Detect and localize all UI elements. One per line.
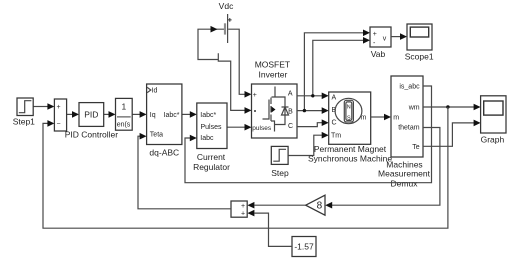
svg-text:Pulses: Pulses [201, 124, 223, 131]
block dq-ABC [147, 84, 182, 145]
wire: Sum1 output to PID [67, 111, 79, 118]
wire: Demux wm feedback to Sum1 - input [43, 107, 448, 228]
svg-text:wm: wm [408, 105, 420, 112]
svg-text:Step1: Step1 [13, 116, 35, 126]
svg-text:A: A [288, 90, 293, 97]
constant block -1.57 [292, 237, 316, 257]
wire: Step to PMSM Tm [288, 132, 329, 156]
svg-text:Measurement: Measurement [378, 169, 431, 179]
svg-text:thetam: thetam [398, 124, 420, 131]
block Step (Tm source) [271, 146, 288, 164]
sum block Sum1 [54, 99, 66, 131]
svg-text:MOSFET: MOSFET [255, 60, 290, 70]
svg-text:+: + [56, 104, 60, 111]
sum block Sum2 [231, 201, 247, 218]
svg-text:Id: Id [152, 88, 158, 95]
svg-text:PID: PID [84, 109, 98, 119]
svg-text:Inverter: Inverter [258, 70, 287, 80]
scope Scope1 [407, 24, 432, 50]
svg-text:C: C [332, 120, 337, 127]
svg-text:-1.57: -1.57 [294, 241, 314, 251]
motor icon inside PMSM [335, 98, 362, 123]
svg-text:Regulator: Regulator [193, 162, 230, 172]
svg-text:Synchronous Machine: Synchronous Machine [308, 154, 392, 164]
svg-text:+: + [241, 211, 245, 218]
svg-text:+: + [373, 31, 377, 38]
svg-text:8: 8 [317, 201, 323, 212]
wire: Demux thetam to Gain 8 input [325, 128, 440, 209]
svg-text:Demux: Demux [391, 178, 419, 188]
block MOSFET Inverter [252, 84, 298, 138]
svg-text:pulses: pulses [252, 125, 272, 132]
wire: Current Regulator Pulses to Inverter pulses [227, 124, 252, 131]
gain block 8 [306, 195, 325, 215]
svg-text:A: A [332, 95, 337, 102]
wire: inverter A to PMSM A with tap to Vab [297, 37, 370, 99]
svg-text:Iabc*: Iabc* [164, 112, 180, 119]
svg-text:Current: Current [197, 152, 226, 162]
block Transfer Fcn 1/den(s) [116, 98, 133, 130]
wire: Transfer Fcn output to dq-ABC Iq [132, 111, 146, 118]
wire: Gain output to Sum2 input 1 [247, 202, 305, 209]
svg-text:Iabc*: Iabc* [200, 112, 216, 119]
voltage measurement block Vab [370, 27, 391, 47]
block PMSM (Permanent Magnet Synchronous Machine) [329, 92, 371, 144]
svg-text:Tm: Tm [331, 133, 341, 140]
svg-text:is_abc: is_abc [399, 84, 420, 91]
svg-text:Permanent Magnet: Permanent Magnet [314, 144, 387, 154]
wire: Vdc plus to inverter + [228, 29, 251, 97]
svg-text:N: N [347, 104, 351, 110]
wire: dq-ABC Iabc* to Current Regulator [182, 111, 197, 118]
scope Graph [481, 96, 506, 133]
svg-text:C: C [288, 123, 293, 130]
wire: -1.57 to Sum2 input 2 [247, 210, 292, 247]
svg-text:Step: Step [271, 168, 289, 178]
svg-text:v: v [383, 35, 387, 42]
MOSFET symbol inside inverter [263, 87, 289, 132]
svg-text:1: 1 [122, 102, 127, 112]
svg-text:−: − [56, 121, 60, 128]
block Current Regulator [197, 103, 227, 149]
wire: inverter B to PMSM B with tap to Vab [297, 30, 370, 114]
svg-text:dq-ABC: dq-ABC [149, 148, 179, 158]
svg-text:m: m [393, 114, 399, 121]
svg-text:PID Controller: PID Controller [65, 129, 119, 139]
wire: Vdc loop left (battery minus to inverter - ) [198, 26, 252, 114]
svg-text:Iabc: Iabc [200, 135, 214, 142]
wire: Demux wm to Graph input 1 (junction) [423, 104, 481, 111]
svg-text:S: S [347, 116, 351, 122]
wire: inverter C to PMSM C [297, 119, 329, 126]
wire: Demux is_abc feedback to Current Regulator Iabc [185, 86, 432, 183]
svg-text:+: + [253, 92, 257, 99]
svg-text:Scope1: Scope1 [405, 52, 434, 62]
battery Vdc (DC voltage source) [225, 14, 232, 43]
svg-text:Vdc: Vdc [219, 1, 234, 11]
block Machines Measurement Demux [391, 76, 423, 157]
wire: Vab to Scope1 [391, 33, 407, 40]
wire: PID output to Transfer Fcn [104, 111, 116, 118]
svg-text:Te: Te [412, 144, 420, 151]
block Step1 [17, 98, 33, 116]
svg-text:Graph: Graph [481, 135, 505, 145]
block PID Controller [79, 103, 104, 127]
svg-text:Teta: Teta [150, 132, 163, 139]
svg-text:Vab: Vab [371, 49, 386, 59]
svg-text:en(s: en(s [117, 122, 131, 129]
wire: Demux Te to Graph input 2 [423, 120, 481, 147]
svg-text:Iq: Iq [150, 112, 156, 119]
svg-text:+: + [241, 203, 245, 210]
wire: Sum2 output to dq-ABC Teta [138, 133, 231, 209]
wire: PMSM m to Demux m [371, 114, 391, 121]
wire: Step1 to Sum1 + input [33, 103, 54, 110]
